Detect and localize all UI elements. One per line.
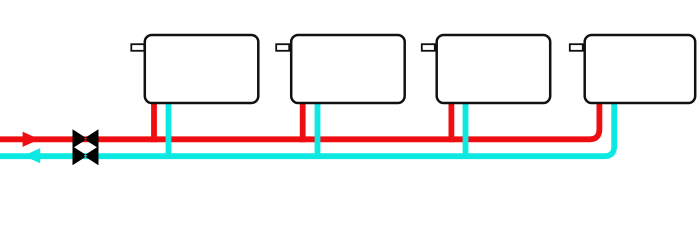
wire supply riser radiator 1 [151,101,157,142]
arrow supply flow in [23,132,40,147]
radiator 3 [437,35,551,103]
arrow return flow out [24,148,41,163]
wire return drop radiator 2 [315,101,321,159]
air-vent valve radiator 1 [131,44,144,51]
radiator 4 [585,35,696,103]
air-vent valve radiator 2 [276,44,289,51]
wire return drop radiator 1 [166,101,172,159]
wire return main (cyan) with elbow up to radiator 4 [0,101,614,156]
radiator 1 [145,35,258,103]
valve V2 on return [73,146,99,165]
air-vent valve radiator 3 [422,44,435,51]
wire supply main (red) with elbow up to radiator 4 [0,101,599,139]
radiator 2 [291,35,405,103]
wire supply riser radiator 3 [448,101,454,142]
wire supply riser radiator 2 [300,101,306,142]
valve V1 on supply [73,129,99,148]
air-vent valve radiator 4 [570,44,583,51]
wire return drop radiator 3 [463,101,469,159]
